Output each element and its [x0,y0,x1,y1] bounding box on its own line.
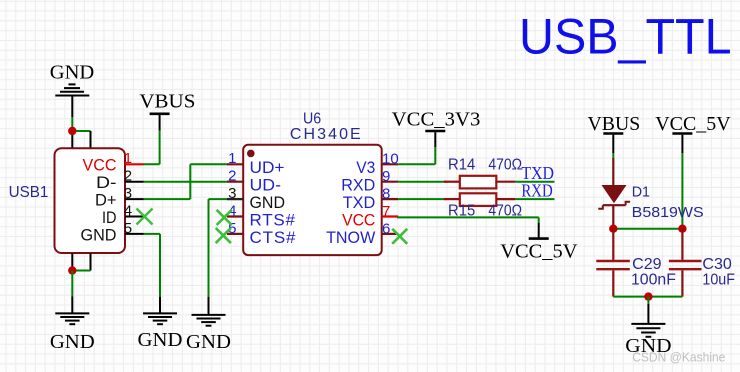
svg-text:RXD: RXD [341,176,375,195]
svg-text:VCC: VCC [342,211,375,230]
svg-text:VCC_3V3: VCC_3V3 [392,108,481,130]
svg-text:CSDN @Kashine: CSDN @Kashine [632,351,725,365]
svg-text:GND: GND [138,329,183,351]
svg-text:6: 6 [382,220,390,237]
svg-text:GND: GND [50,331,95,353]
svg-text:GND: GND [250,193,286,212]
svg-text:D1: D1 [632,184,650,201]
svg-text:USB_TTL: USB_TTL [519,8,732,64]
svg-text:1: 1 [228,150,236,167]
svg-text:D+: D+ [95,191,117,210]
svg-text:3: 3 [228,185,236,202]
svg-text:2: 2 [228,167,236,184]
svg-text:UD-: UD- [250,176,282,195]
svg-text:R14: R14 [448,156,475,173]
svg-text:10: 10 [382,151,399,168]
svg-text:GND: GND [81,226,117,245]
svg-text:CH340E: CH340E [290,126,361,143]
svg-text:V3: V3 [356,158,375,177]
svg-text:UD+: UD+ [250,158,285,177]
svg-text:VBUS: VBUS [588,113,641,135]
svg-text:RXD: RXD [521,181,552,201]
svg-text:10uF: 10uF [702,271,735,288]
svg-text:C30: C30 [702,256,732,273]
svg-text:9: 9 [382,168,390,185]
svg-text:TXD: TXD [343,193,376,212]
svg-text:USB1: USB1 [9,184,49,201]
svg-text:D-: D- [96,173,117,192]
svg-text:GND: GND [186,331,231,353]
svg-text:7: 7 [382,203,390,220]
svg-text:VCC_5V: VCC_5V [500,241,578,263]
svg-text:100nF: 100nF [631,271,676,288]
svg-text:CTS#: CTS# [250,228,297,247]
svg-text:470Ω: 470Ω [488,156,522,173]
svg-text:TNOW: TNOW [326,228,375,247]
svg-text:GND: GND [50,61,95,83]
svg-text:8: 8 [382,186,390,203]
svg-text:VBUS: VBUS [139,91,195,113]
svg-text:B5819WS: B5819WS [632,204,704,221]
svg-text:ID: ID [102,208,117,227]
svg-text:VCC_5V: VCC_5V [655,113,731,135]
svg-text:VCC: VCC [83,156,117,175]
svg-text:RTS#: RTS# [250,211,296,230]
svg-text:C29: C29 [632,256,661,273]
